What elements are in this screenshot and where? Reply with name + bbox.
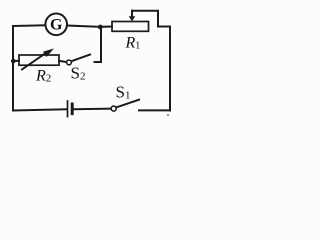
wire S2 right stub <box>95 61 102 63</box>
R2 arrow shaft <box>22 52 48 70</box>
battery short thick plate <box>71 104 74 114</box>
galvanometer G circle <box>45 13 67 35</box>
node A junction dot <box>98 25 103 30</box>
R1 wiper arrowhead <box>129 16 136 21</box>
switch S2 contact circle <box>67 60 72 65</box>
R2 arrowhead <box>43 48 54 57</box>
wire S2 stub up to node A <box>100 27 102 62</box>
wire bottom-right <box>139 109 170 111</box>
svg-text:G: G <box>50 17 63 34</box>
stray speck <box>167 114 169 116</box>
battery long plate <box>67 101 69 117</box>
R1 wiper stem <box>131 11 133 17</box>
switch S1 lever <box>116 100 139 108</box>
wire R2 to S2 contact <box>59 61 66 62</box>
switch S1 contact circle <box>111 106 116 111</box>
wire G right to node A <box>67 26 100 27</box>
wire wiper to right side (step) <box>132 11 170 27</box>
wire bottom-left <box>13 109 67 110</box>
switch S2 lever <box>71 55 90 62</box>
wire right vertical <box>169 27 171 111</box>
wire battery to S1 <box>74 108 111 111</box>
wire top-left horizontal <box>13 24 45 27</box>
node B junction dot <box>11 59 16 64</box>
wire R2 branch: node B to R2 <box>13 60 19 62</box>
wire node A to R1 left <box>100 26 112 28</box>
resistor R2 body <box>19 55 59 65</box>
resistor R1 body <box>112 22 149 32</box>
wire left vertical <box>12 26 14 111</box>
